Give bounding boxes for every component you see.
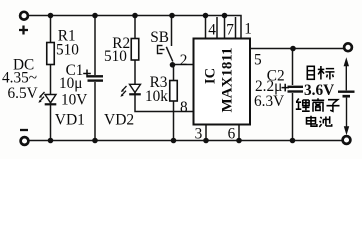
- svg-text:SB: SB: [150, 29, 169, 46]
- svg-text:10k: 10k: [145, 88, 168, 105]
- svg-text:6.5V: 6.5V: [8, 85, 38, 102]
- svg-text:MAX1811: MAX1811: [220, 48, 236, 113]
- svg-text:8: 8: [180, 99, 188, 116]
- svg-text:10V: 10V: [61, 91, 87, 108]
- svg-text:3.6V: 3.6V: [304, 82, 334, 99]
- svg-text:4.35~: 4.35~: [2, 70, 37, 87]
- svg-text:IC: IC: [203, 68, 219, 84]
- svg-text:3: 3: [195, 126, 203, 143]
- svg-text:5: 5: [254, 52, 262, 69]
- svg-text:510: 510: [104, 48, 127, 65]
- svg-text:1: 1: [244, 21, 252, 38]
- svg-text:7: 7: [226, 22, 234, 39]
- svg-text:VD2: VD2: [104, 112, 134, 129]
- svg-text:4: 4: [208, 22, 216, 39]
- svg-text:6: 6: [228, 126, 236, 143]
- svg-text:VD1: VD1: [55, 112, 85, 129]
- svg-text:10μ: 10μ: [59, 75, 83, 92]
- svg-text:2: 2: [180, 52, 188, 69]
- svg-text:6.3V: 6.3V: [254, 93, 284, 110]
- svg-text:510: 510: [56, 41, 79, 58]
